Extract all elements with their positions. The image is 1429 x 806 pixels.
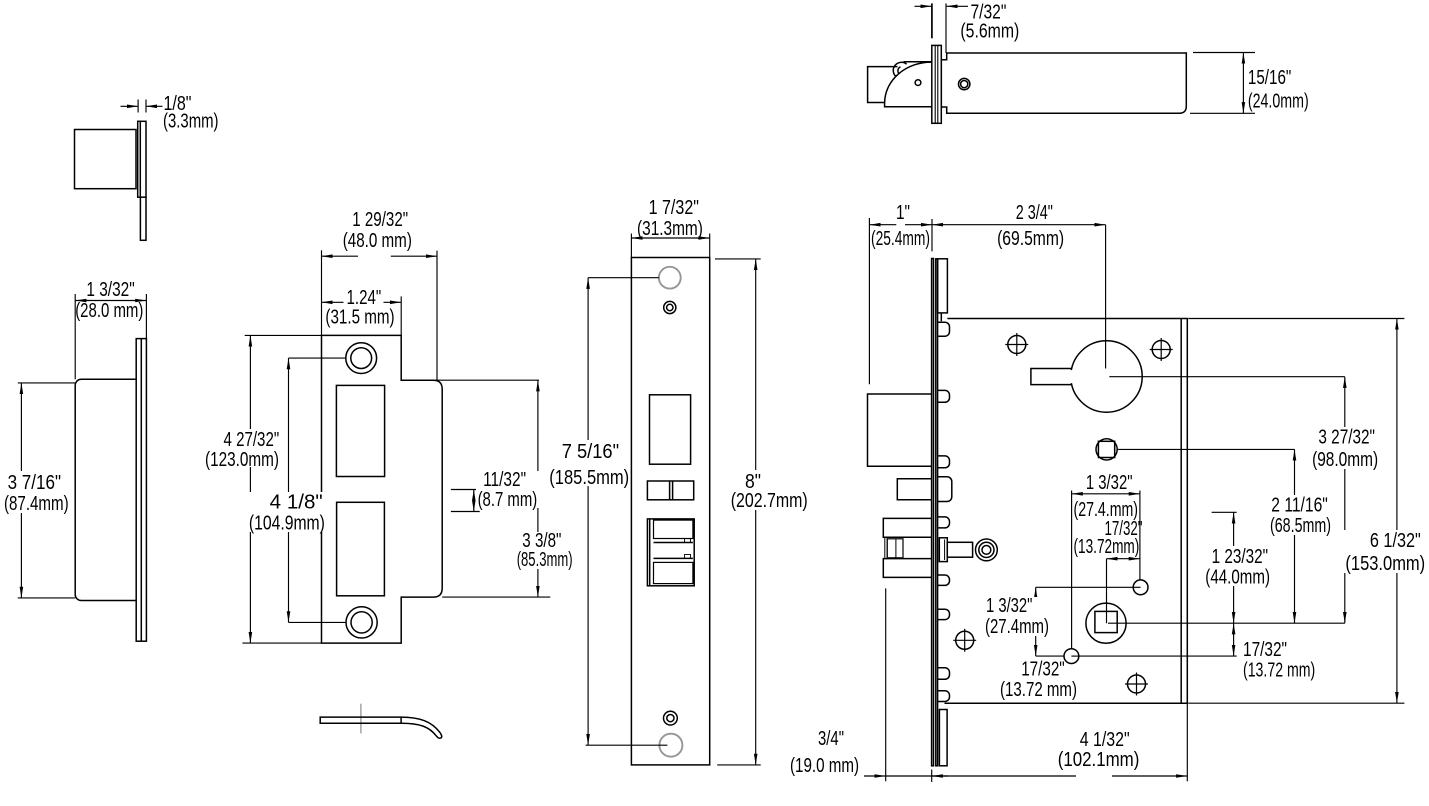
svg-text:4 1/8": 4 1/8" — [270, 492, 323, 514]
svg-text:1 3/32": 1 3/32" — [1086, 472, 1133, 494]
svg-text:(123.0mm): (123.0mm) — [205, 449, 279, 471]
svg-text:3 7/16": 3 7/16" — [8, 472, 61, 494]
svg-text:7 5/16": 7 5/16" — [562, 441, 619, 463]
svg-text:(87.4mm): (87.4mm) — [4, 493, 69, 515]
svg-text:1": 1" — [896, 202, 910, 224]
svg-text:(5.6mm): (5.6mm) — [960, 21, 1019, 43]
svg-text:4 1/32": 4 1/32" — [1080, 729, 1130, 751]
svg-text:3 27/32": 3 27/32" — [1318, 427, 1375, 449]
svg-text:(102.1mm): (102.1mm) — [1058, 749, 1140, 771]
svg-text:3/4": 3/4" — [818, 728, 844, 750]
svg-text:1 23/32": 1 23/32" — [1212, 546, 1269, 568]
svg-text:(31.5 mm): (31.5 mm) — [325, 307, 394, 329]
svg-text:(44.0mm): (44.0mm) — [1205, 567, 1270, 589]
svg-text:11/32": 11/32" — [483, 469, 526, 491]
svg-text:1 3/32": 1 3/32" — [86, 279, 134, 301]
svg-text:(31.3mm): (31.3mm) — [637, 218, 703, 240]
svg-text:(19.0 mm): (19.0 mm) — [790, 755, 859, 777]
svg-text:(185.5mm): (185.5mm) — [549, 467, 629, 489]
svg-text:(13.72 mm): (13.72 mm) — [1243, 660, 1315, 682]
svg-text:(8.7 mm): (8.7 mm) — [478, 489, 538, 511]
svg-text:(24.0mm): (24.0mm) — [1248, 91, 1309, 113]
svg-text:(27.4mm): (27.4mm) — [985, 616, 1049, 638]
svg-text:15/16": 15/16" — [1248, 67, 1291, 89]
svg-text:1 7/32": 1 7/32" — [649, 197, 699, 219]
svg-text:2 11/16": 2 11/16" — [1271, 495, 1328, 517]
svg-text:1 29/32": 1 29/32" — [352, 209, 408, 231]
svg-text:(28.0 mm): (28.0 mm) — [75, 300, 143, 322]
svg-text:6 1/32": 6 1/32" — [1370, 530, 1421, 552]
svg-text:(13.72mm): (13.72mm) — [1074, 536, 1140, 558]
svg-text:4 27/32": 4 27/32" — [224, 429, 280, 451]
svg-text:1 3/32": 1 3/32" — [986, 595, 1032, 617]
svg-text:(153.0mm): (153.0mm) — [1345, 553, 1425, 575]
svg-text:17/32": 17/32" — [1243, 639, 1287, 661]
svg-text:(202.7mm): (202.7mm) — [731, 490, 808, 512]
svg-text:(13.72 mm): (13.72 mm) — [1000, 679, 1077, 701]
svg-text:(104.9mm): (104.9mm) — [249, 513, 325, 535]
svg-text:(98.0mm): (98.0mm) — [1312, 449, 1378, 471]
svg-text:2 3/4": 2 3/4" — [1016, 202, 1053, 224]
svg-text:(48.0 mm): (48.0 mm) — [343, 230, 412, 252]
svg-text:(68.5mm): (68.5mm) — [1270, 515, 1331, 537]
svg-text:(3.3mm): (3.3mm) — [163, 111, 219, 133]
svg-text:(69.5mm): (69.5mm) — [997, 228, 1064, 250]
svg-text:(25.4mm): (25.4mm) — [871, 228, 930, 250]
svg-text:(85.3mm): (85.3mm) — [517, 549, 573, 571]
svg-text:17/32": 17/32" — [1021, 659, 1064, 681]
